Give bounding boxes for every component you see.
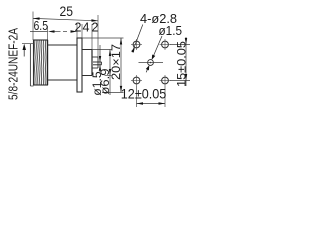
hole bottom-right crosshair (160, 75, 171, 86)
front view hole top-left (133, 41, 140, 48)
pin dimension lower arrow (99, 65, 101, 71)
leader dia1.5 line (154, 36, 162, 56)
dimension 20x17 bottom arrow (120, 86, 122, 93)
svg-text:ø1.5: ø1.5 (159, 23, 183, 38)
contact pin end (101, 62, 103, 65)
pin dimension line (99, 45, 101, 72)
rear tube top edge (92, 56, 98, 58)
flange bottom edge extension (102, 91, 124, 93)
extension line x=92 (91, 24, 93, 50)
leader 4-dia2.8 arrow (131, 48, 135, 53)
dimension 20x17 top arrow (120, 38, 122, 45)
extension line x=47.5 (47, 26, 49, 40)
ext line for dia 6.9 top (92, 49, 112, 51)
body cylinder top edge (48, 44, 78, 46)
dimension 12 left arrow (137, 102, 144, 104)
dimension 20x17 line (120, 38, 122, 92)
dimension 6.5 line under text (30, 31, 48, 33)
front view hole top-right (162, 41, 169, 48)
front view hole bottom-right (162, 77, 169, 84)
front view center pin dot (150, 62, 152, 64)
extension line x=77 (76, 24, 78, 38)
contact pin top edge (93, 61, 102, 63)
svg-text:15±0.05: 15±0.05 (175, 41, 189, 87)
hole bottom-left crosshair (131, 75, 142, 86)
leader 4-dia2.8 line (132, 25, 143, 53)
front view hole bottom-left (133, 77, 140, 84)
hole top-left crosshair (131, 39, 142, 50)
dimension dia 6.9 bottom arrow (109, 69, 111, 76)
front interface tube left edge (29, 44, 31, 86)
rear tube bottom edge (92, 67, 98, 69)
ext line hole left bottom (136, 86, 138, 107)
dimension 6.5 outside arrow (48, 30, 55, 32)
dimension line dash segment (63, 31, 67, 33)
thread texture squiggles (34, 41, 48, 85)
front interface tube top edge (22, 43, 34, 45)
extension line x=82 (81, 24, 83, 38)
leader dia1.5 tail (146, 70, 147, 73)
side view: threaded barrel outline (34, 40, 48, 85)
thread rear face line (47, 40, 49, 85)
leader dia1.5 lower arrow (146, 65, 150, 70)
front view center pin circle (148, 60, 154, 66)
svg-text:25: 25 (60, 3, 74, 19)
ext line hole bottom-right side (170, 80, 190, 82)
thread callout leader arrow (23, 44, 27, 50)
dimension dia 6.9 top arrow (109, 50, 111, 57)
ext line hole top-right side (170, 44, 190, 46)
mid section rear face (91, 50, 93, 76)
dimension 25 right arrow (91, 19, 98, 22)
ext line for dia 6.9 bottom (105, 75, 112, 77)
flange plate (side view) (77, 38, 82, 92)
dimension line tail after arrow (55, 31, 61, 33)
pin dimension upper arrow (99, 56, 101, 62)
front view horizontal centerline (139, 62, 164, 64)
dimension 25 left arrow (33, 17, 40, 20)
svg-text:12±0.05: 12±0.05 (121, 86, 167, 102)
extension line x=98 (97, 15, 99, 57)
svg-text:2: 2 (92, 21, 99, 35)
svg-text:5/8-24UNEF-2A: 5/8-24UNEF-2A (6, 28, 21, 100)
hole top-right crosshair (160, 39, 171, 50)
rear tube end face (97, 57, 99, 68)
mid section top edge (82, 49, 92, 51)
dimension 15 top arrow (185, 38, 187, 45)
ext line hole right bottom (164, 86, 166, 107)
dimension 15 bottom arrow (185, 74, 187, 81)
dimension 15 line (185, 37, 187, 86)
dimension 12 line (137, 103, 166, 105)
extension line x=33 (32, 12, 34, 41)
body dimension right arrow (71, 30, 78, 32)
thread callout leader tail (23, 50, 25, 57)
dimension dia 6.9 line (109, 50, 111, 96)
dimension 12 right arrow (159, 102, 166, 104)
svg-text:ø1.5: ø1.5 (92, 71, 104, 96)
leader dia1.5 upper arrow (152, 55, 156, 60)
flange top edge extension to front dimension (82, 37, 124, 39)
svg-text:4: 4 (83, 21, 90, 35)
contact pin bottom edge (93, 64, 102, 66)
dimension 25 line (33, 18, 98, 20)
mid section bottom edge (82, 75, 92, 77)
svg-text:6.5: 6.5 (34, 18, 49, 33)
front interface tube bottom edge (30, 85, 33, 87)
svg-text:2: 2 (75, 21, 82, 35)
body cylinder bottom edge (48, 79, 78, 81)
